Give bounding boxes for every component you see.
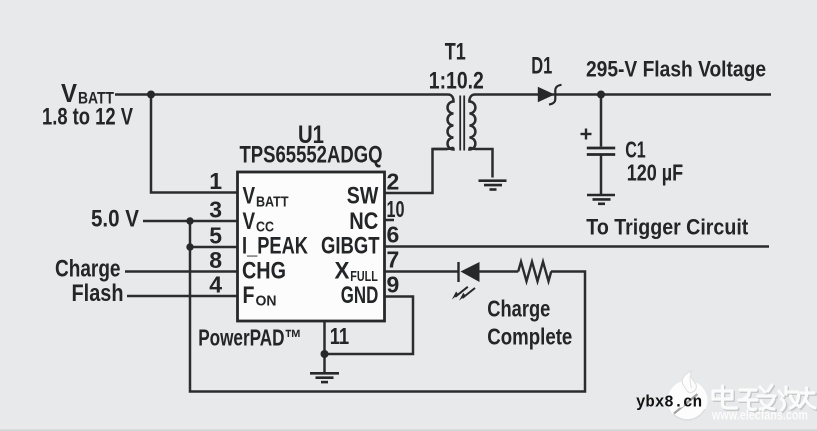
transformer T1 secondary winding <box>469 95 475 150</box>
wire C1 to ground <box>600 156 603 195</box>
watermark chinese characters <box>713 385 816 411</box>
capacitor C1 plus sign <box>581 129 592 140</box>
wire node A down to pin 1 <box>151 95 238 193</box>
svg-text:11: 11 <box>330 323 350 349</box>
diode D1 <box>538 85 562 105</box>
bottom border <box>0 429 817 431</box>
svg-text:T1: T1 <box>445 39 466 66</box>
pin name FON (pin 4) <box>243 282 277 310</box>
wire LED to resistor <box>479 270 518 273</box>
svg-text:295-V Flash Voltage: 295-V Flash Voltage <box>586 56 766 81</box>
svg-text:PowerPAD™: PowerPAD™ <box>198 325 302 351</box>
svg-text:NC: NC <box>349 208 378 235</box>
svg-text:5: 5 <box>209 223 222 249</box>
svg-text:GND: GND <box>341 282 379 309</box>
transformer T1 core <box>460 96 464 151</box>
wire pin 7 to LED <box>385 270 459 273</box>
svg-text:F: F <box>243 282 255 309</box>
wire pin 11 to ground <box>323 321 326 373</box>
svg-text:Flash: Flash <box>72 280 124 307</box>
label VBATT <box>61 78 114 108</box>
svg-text:8: 8 <box>209 247 222 273</box>
wire Charge to pin 8 <box>125 270 238 273</box>
pin name VCC (pin 3) <box>243 208 275 236</box>
node D junction dot (pin 11) <box>321 350 329 358</box>
svg-text:1: 1 <box>209 168 222 194</box>
svg-text:Complete: Complete <box>487 323 572 349</box>
pin name VBATT (pin 1) <box>243 183 289 211</box>
svg-text:10: 10 <box>387 196 405 222</box>
node E junction dot (output node) <box>597 91 605 99</box>
svg-text:7: 7 <box>387 247 400 273</box>
svg-text:1.8 to 12 V: 1.8 to 12 V <box>42 104 133 131</box>
transformer T1 primary winding <box>433 95 454 150</box>
wire transformer secondary top to output <box>475 93 771 96</box>
svg-text:TPS65552ADGQ: TPS65552ADGQ <box>240 142 383 169</box>
wire pin 10 stub <box>385 219 395 222</box>
node B junction dot (5.0V) <box>186 217 193 224</box>
svg-text:SW: SW <box>347 183 379 210</box>
wire Flash to pin 4 <box>127 295 238 298</box>
wire pin 9 to node D <box>325 297 414 355</box>
svg-text:2: 2 <box>387 169 400 195</box>
ground (transformer secondary) <box>479 181 507 190</box>
wire node A to transformer primary <box>151 93 448 96</box>
svg-text:D1: D1 <box>531 52 552 79</box>
svg-text:3: 3 <box>209 197 222 223</box>
svg-text:4: 4 <box>209 272 222 298</box>
svg-text:Charge: Charge <box>487 295 550 321</box>
svg-text:6: 6 <box>387 222 400 248</box>
svg-text:To Trigger Circuit: To Trigger Circuit <box>586 214 749 239</box>
wire node C to pin 5 <box>190 246 238 249</box>
wire 5.0V to pin 3 <box>143 220 238 223</box>
wire transformer secondary bottom to ground <box>476 149 493 178</box>
svg-text:X: X <box>335 258 350 285</box>
svg-text:5.0 V: 5.0 V <box>91 206 139 233</box>
node A junction dot <box>147 91 155 99</box>
wire VBATT to node A <box>115 93 151 96</box>
wire pin 2 to transformer primary bottom <box>385 149 448 193</box>
svg-text:www.elecfans.com: www.elecfans.com <box>711 408 808 423</box>
svg-text:9: 9 <box>387 272 400 298</box>
wire node E down to C1 <box>600 95 603 147</box>
pin name XFULL (pin 7) <box>335 258 378 286</box>
svg-text:GIBGT: GIBGT <box>321 233 380 260</box>
svg-text:ON: ON <box>256 293 277 310</box>
svg-text:ybx8.cn: ybx8.cn <box>636 393 702 412</box>
resistor (charge complete) <box>518 262 551 282</box>
ground (C1) <box>587 195 615 204</box>
svg-text:CHG: CHG <box>242 258 286 285</box>
svg-text:1:10.2: 1:10.2 <box>429 67 484 94</box>
svg-text:I_PEAK: I_PEAK <box>242 233 309 260</box>
LED (charge complete) <box>452 262 480 301</box>
wire pin 6 to trigger circuit <box>385 245 770 248</box>
svg-text:BATT: BATT <box>256 193 289 210</box>
svg-text:120 µF: 120 µF <box>627 159 684 185</box>
capacitor C1 <box>587 148 615 155</box>
wire node C down to bottom loop <box>190 247 585 392</box>
watermark logo circle <box>668 371 708 421</box>
svg-text:Charge: Charge <box>55 256 121 283</box>
ground (PowerPAD pin 11) <box>310 373 339 382</box>
svg-text:V: V <box>243 183 256 210</box>
wire node B down to node C <box>189 221 192 247</box>
svg-text:V: V <box>243 208 256 235</box>
op-amp/IC U1 box <box>238 172 385 321</box>
node C junction dot (I_PEAK) <box>186 243 193 250</box>
